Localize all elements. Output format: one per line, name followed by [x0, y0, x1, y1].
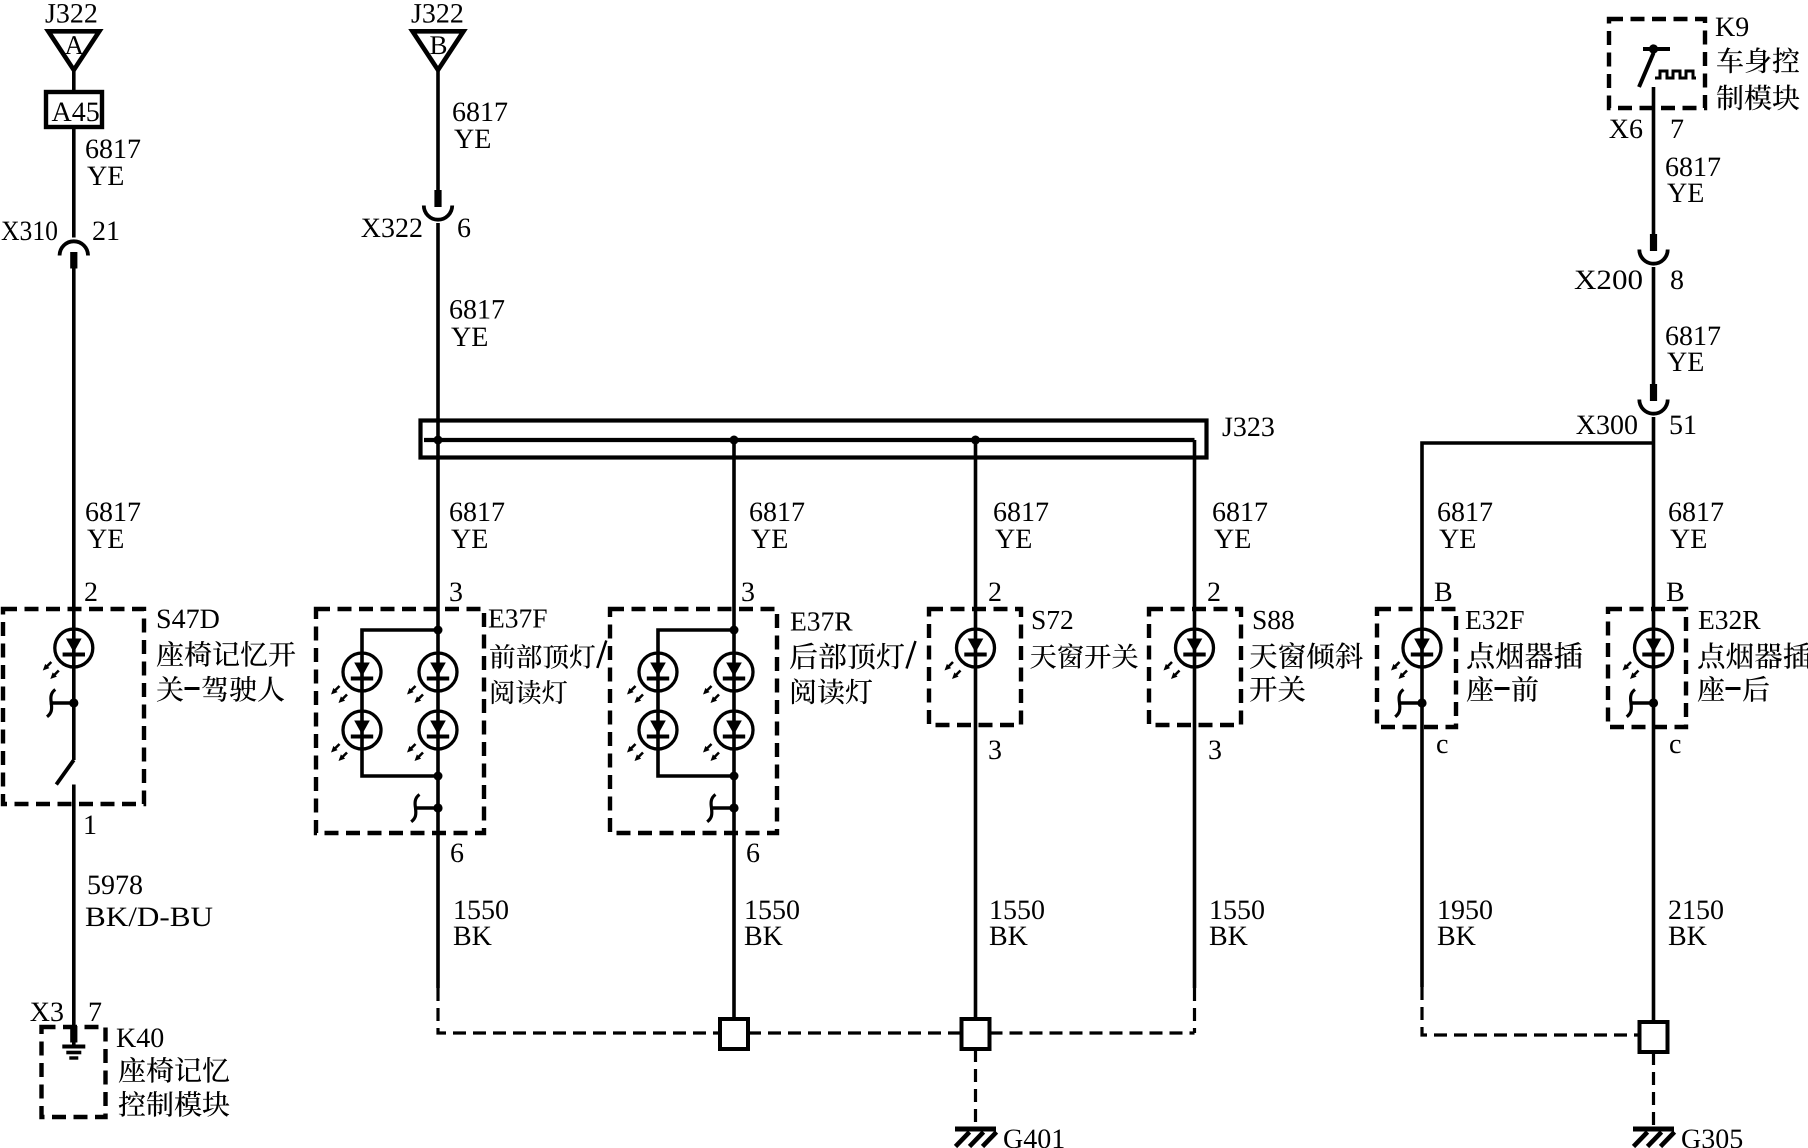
svg-text:YE: YE — [995, 524, 1032, 555]
junction node — [730, 772, 739, 781]
LED lamp E37R 1 — [627, 653, 677, 703]
wire label 1550 BK — [453, 895, 509, 952]
pin B of E32F — [1434, 577, 1453, 608]
wire 6817 YE — [1654, 443, 1725, 1022]
label E37F — [488, 603, 606, 705]
LED lamp E37R 3 — [703, 653, 753, 703]
wire 6817 YE — [976, 440, 1050, 1019]
connector J322 arrow B — [411, 0, 464, 70]
module K9 body control module (dashed box) — [1609, 19, 1705, 108]
pin c of E32R — [1669, 729, 1681, 760]
splice S1 — [720, 1019, 748, 1049]
svg-text:BK: BK — [744, 921, 783, 952]
LED indicator in S47D — [43, 629, 93, 679]
svg-text:5978: 5978 — [87, 870, 143, 901]
svg-text:BK: BK — [1437, 921, 1476, 952]
svg-text:J323: J323 — [1222, 412, 1275, 443]
svg-text:3: 3 — [449, 577, 463, 608]
switch S72 sunroof switch (dashed box) — [929, 609, 1021, 725]
ground G305 — [1633, 1124, 1743, 1148]
LED indicator in E32R — [1623, 629, 1673, 679]
connector J322 arrow A — [45, 0, 99, 70]
switch blade S47D (open contact) — [56, 760, 74, 785]
svg-text:YE: YE — [1667, 347, 1704, 378]
LED indicator in S88 — [1164, 629, 1214, 679]
lamp contact hook in E37F — [411, 795, 442, 822]
svg-text:BK: BK — [1209, 921, 1248, 952]
svg-text:YE: YE — [1439, 524, 1476, 555]
svg-text:YE: YE — [1214, 524, 1251, 555]
svg-text:6: 6 — [450, 838, 464, 869]
dashed ground wire — [990, 1031, 1195, 1034]
svg-text:1: 1 — [83, 810, 97, 841]
svg-text:E37R: E37R — [790, 606, 853, 637]
svg-text:2: 2 — [1207, 577, 1221, 608]
wire branch to E32F — [1422, 443, 1654, 987]
wire label 6817 YE — [449, 497, 505, 555]
connector X3 pin 7 — [30, 997, 102, 1028]
lamp contact hook in S47D — [47, 690, 78, 717]
wire 6817 YE — [438, 223, 505, 988]
svg-text:G401: G401 — [1003, 1124, 1065, 1148]
dashed wire to ground — [1652, 1052, 1655, 1127]
junction node — [730, 626, 739, 635]
pin c of E32F — [1436, 729, 1448, 760]
svg-text:2: 2 — [988, 577, 1002, 608]
LED lamp E37F 3 — [407, 653, 457, 703]
dashed ground wire — [748, 1031, 962, 1034]
svg-text:YE: YE — [454, 124, 491, 155]
connector X200 pin 8 — [1574, 234, 1684, 296]
svg-text:3: 3 — [1208, 735, 1222, 766]
LED lamp E37F 4 — [407, 711, 457, 761]
junction node — [434, 772, 443, 781]
connector X6 pin 7 — [1609, 114, 1684, 145]
junction node on J323 — [730, 436, 739, 445]
wire — [1652, 417, 1656, 443]
electronic switch in K9 — [1639, 44, 1696, 87]
label S72 — [1030, 604, 1137, 669]
junction node — [434, 626, 443, 635]
label E32F — [1465, 604, 1582, 702]
bus bar J323 — [421, 412, 1275, 458]
svg-text:YE: YE — [87, 161, 124, 192]
lamp E37F front dome/reading lamp (dashed box) — [316, 609, 484, 833]
svg-text:3: 3 — [741, 577, 755, 608]
wire 6817 YE — [74, 127, 141, 238]
svg-text:K40: K40 — [116, 1023, 164, 1054]
wire label 6817 YE — [1437, 497, 1493, 555]
svg-text:S88: S88 — [1252, 604, 1295, 635]
wire 6817 YE — [1654, 87, 1722, 234]
switch S47D seat memory switch driver (dashed box) — [3, 609, 144, 804]
splice S3 — [1640, 1022, 1668, 1052]
switch S88 sunroof tilt switch (dashed box) — [1149, 609, 1241, 725]
svg-text:B: B — [1434, 577, 1453, 608]
svg-text:2: 2 — [84, 577, 98, 608]
svg-text:YE: YE — [87, 524, 124, 555]
lamp contact hook in E32R — [1627, 690, 1658, 717]
ground G401 — [955, 1124, 1065, 1148]
pin 3 of E37F — [449, 577, 463, 608]
svg-text:B: B — [1666, 577, 1685, 608]
label S88 — [1250, 604, 1363, 702]
label E37R — [790, 606, 916, 705]
pin 2 of S47D — [84, 577, 98, 608]
svg-text:c: c — [1436, 729, 1448, 760]
svg-text:BK: BK — [989, 921, 1028, 952]
pin into K40 — [70, 1026, 77, 1043]
svg-text:X300: X300 — [1576, 410, 1638, 441]
svg-text:X322: X322 — [361, 213, 423, 244]
svg-text:7: 7 — [1670, 114, 1684, 145]
pin 3 of S88 — [1208, 735, 1222, 766]
svg-text:YE: YE — [1670, 524, 1707, 555]
pin B of E32R — [1666, 577, 1685, 608]
lamp contact hook in E37R — [707, 795, 738, 822]
svg-text:X3: X3 — [30, 997, 64, 1028]
wire branch E37F — [362, 630, 438, 776]
socket E32R cigarette lighter rear (dashed box) — [1608, 609, 1686, 727]
svg-text:7: 7 — [88, 997, 102, 1028]
label K9 — [1715, 12, 1799, 110]
svg-text:YE: YE — [451, 524, 488, 555]
wire 6817 YE — [1195, 440, 1269, 988]
svg-text:YE: YE — [751, 524, 788, 555]
wire branch E37R — [658, 630, 734, 776]
svg-text:BK: BK — [453, 921, 492, 952]
svg-text:YE: YE — [451, 322, 488, 353]
wire label 2150 BK — [1668, 895, 1724, 952]
svg-text:E32F: E32F — [1465, 604, 1525, 635]
svg-text:K9: K9 — [1715, 12, 1749, 43]
svg-text:J322: J322 — [45, 0, 98, 30]
wire 6817 YE — [734, 440, 805, 1019]
wire — [72, 785, 76, 1027]
lamp contact hook in E32F — [1395, 690, 1426, 717]
connector X322 pin 6 — [361, 190, 471, 244]
pin 2 of S88 — [1207, 577, 1221, 608]
wire 6817 YE — [438, 70, 508, 190]
junction node on J323 — [434, 436, 443, 445]
dashed wire to ground — [974, 1049, 977, 1127]
svg-text:X310: X310 — [1, 216, 58, 247]
connector X310 pin 21 — [1, 216, 120, 269]
svg-text:BK/D-BU: BK/D-BU — [85, 902, 213, 933]
wire — [72, 70, 76, 92]
wire 6817 YE — [74, 268, 141, 760]
pin 1 of S47D — [83, 810, 97, 841]
svg-text:3: 3 — [988, 735, 1002, 766]
component A45 — [46, 92, 102, 128]
pin 3 of S72 — [988, 735, 1002, 766]
label K40 — [116, 1023, 229, 1117]
LED lamp E37F 2 — [331, 711, 381, 761]
lamp E37R rear dome/reading lamp (dashed box) — [610, 609, 777, 833]
wire label 1550 BK — [989, 895, 1045, 952]
LED lamp E37R 2 — [627, 711, 677, 761]
pin 6 of E37R — [746, 838, 760, 869]
module K40 seat memory control module (dashed box) — [42, 1027, 106, 1117]
wire label 1550 BK — [1209, 895, 1265, 952]
junction node on J323 — [971, 436, 980, 445]
svg-text:21: 21 — [92, 216, 120, 247]
dashed ground wire — [1193, 988, 1196, 1033]
svg-text:S72: S72 — [1031, 604, 1074, 635]
wire label 1950 BK — [1437, 895, 1493, 952]
wire 6817 YE — [1654, 267, 1722, 384]
pin 3 of E37R — [741, 577, 755, 608]
dashed ground wire — [438, 988, 720, 1033]
svg-text:B: B — [429, 30, 447, 60]
wire label 1550 BK — [744, 895, 800, 952]
dashed ground wire — [1422, 987, 1640, 1035]
splice S2 — [962, 1019, 990, 1049]
label E32R — [1698, 604, 1808, 702]
svg-text:S47D: S47D — [156, 604, 220, 635]
svg-text:E37F: E37F — [488, 603, 548, 634]
LED indicator in E32F — [1391, 629, 1441, 679]
svg-text:6: 6 — [746, 838, 760, 869]
LED lamp E37F 1 — [331, 653, 381, 703]
svg-text:6: 6 — [457, 213, 471, 244]
socket E32F cigarette lighter front (dashed box) — [1377, 609, 1456, 727]
svg-text:51: 51 — [1669, 410, 1697, 441]
svg-text:8: 8 — [1670, 265, 1684, 296]
LED lamp E37R 4 — [703, 711, 753, 761]
svg-text:YE: YE — [1667, 178, 1704, 209]
svg-text:A: A — [65, 30, 85, 60]
svg-text:G305: G305 — [1681, 1124, 1743, 1148]
svg-text:X200: X200 — [1574, 265, 1643, 296]
svg-text:c: c — [1669, 729, 1681, 760]
connector X300 pin 51 — [1576, 384, 1697, 441]
label S47D — [156, 604, 295, 702]
svg-text:E32R: E32R — [1698, 604, 1761, 635]
pin 6 of E37F — [450, 838, 464, 869]
ground symbol in K40 — [62, 1043, 85, 1059]
svg-text:X6: X6 — [1609, 114, 1643, 145]
svg-text:A45: A45 — [52, 97, 100, 128]
svg-text:J322: J322 — [411, 0, 464, 30]
wire label 5978 BK/D-BU — [85, 870, 213, 933]
svg-text:6817: 6817 — [449, 295, 505, 326]
LED indicator in S72 — [945, 629, 995, 679]
svg-text:BK: BK — [1668, 921, 1707, 952]
pin 2 of S72 — [988, 577, 1002, 608]
